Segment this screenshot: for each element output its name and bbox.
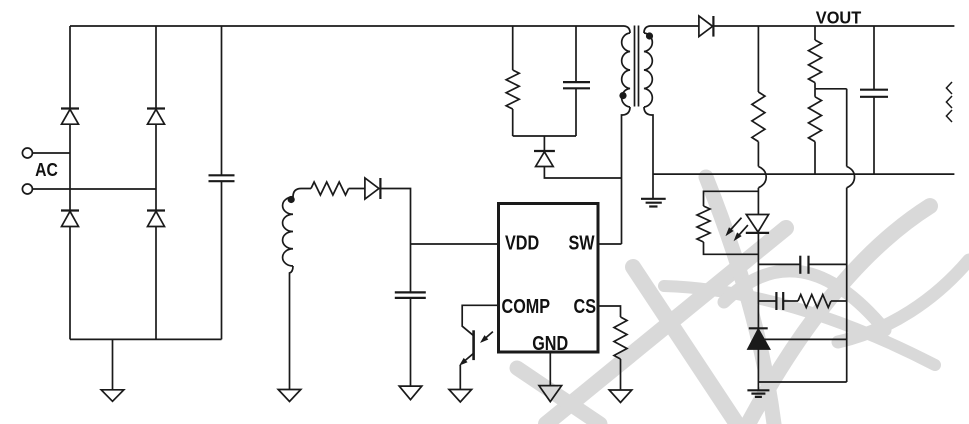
wire AC1 to bridge	[32, 152, 70, 154]
wire hop right over return rail	[847, 167, 855, 188]
wire CS	[598, 306, 621, 317]
polarity dot secondary	[646, 32, 653, 39]
svg-text:CS: CS	[574, 294, 596, 317]
svg-text:VOUT: VOUT	[816, 7, 862, 28]
resistor R9 compensation	[798, 295, 831, 308]
ground primary bridge	[101, 339, 124, 401]
watermark right X arm B	[706, 177, 774, 424]
resistor R4 divider upper	[809, 26, 822, 89]
transistor Q1 opto phototransistor	[460, 330, 493, 389]
wire snubber bottom join	[513, 135, 576, 137]
ground opto emitter	[449, 390, 472, 403]
wire opto resistor top	[704, 191, 759, 206]
watermark cap arc	[724, 271, 885, 330]
resistor R7 upper feedback branch	[752, 26, 765, 167]
capacitor C3 snubber	[563, 26, 590, 136]
ground aux winding	[278, 390, 301, 402]
op-amp U1 controller box	[499, 204, 599, 353]
watermark right crescent	[838, 260, 969, 342]
wire CS resistor to ground	[620, 359, 622, 390]
watermark shallow arc	[664, 286, 935, 365]
inductor L1 aux winding	[283, 189, 311, 390]
diode U3 TL431 shunt	[748, 328, 770, 349]
polarity dot primary	[619, 92, 626, 99]
earth ground TL431	[747, 382, 769, 397]
LED U2 optocoupler emitter	[727, 215, 770, 241]
ground IC	[539, 386, 562, 402]
diode D5 aux	[365, 178, 381, 199]
resistor R10 edge clipped	[946, 82, 952, 122]
wire divider node	[815, 88, 847, 90]
wire GND pin	[549, 352, 551, 386]
diode D4 bridge bottom-right	[147, 211, 165, 227]
resistor R5 divider lower	[809, 89, 822, 174]
wire middle bridge vertical	[155, 26, 157, 339]
ground CS	[609, 390, 632, 403]
terminal AC2	[22, 184, 32, 194]
wire hop over return rail	[758, 167, 766, 188]
capacitor C1 bulk	[209, 26, 235, 339]
capacitor C2 VDD	[395, 292, 426, 386]
wire AC2 to bridge	[32, 188, 156, 190]
svg-text:COMP: COMP	[502, 294, 551, 317]
wire bridge bottom rail	[70, 338, 222, 340]
svg-text:VDD: VDD	[505, 231, 539, 254]
capacitor C5 compensation	[776, 292, 798, 310]
svg-text:AC: AC	[35, 159, 58, 181]
wire snubber mid to diode	[543, 136, 545, 151]
capacitor C4 feedback	[800, 256, 846, 274]
wire cap branch	[758, 263, 800, 265]
terminal AC1	[22, 148, 32, 158]
resistor R8 opto parallel	[697, 206, 710, 242]
resistor R2 snubber	[506, 26, 519, 136]
diode D6 snubber clamp	[534, 151, 555, 167]
transformer T1 core	[635, 26, 639, 107]
resistor R6 CS sense	[614, 317, 627, 359]
svg-text:SW: SW	[569, 231, 596, 254]
wire top rail (rectified HV bus)	[70, 25, 624, 27]
diode D1 bridge top-left	[61, 109, 79, 125]
diode D7 output rectifier	[699, 16, 714, 37]
wire right feedback vertical upper	[846, 89, 848, 167]
watermark left X arm B	[633, 267, 737, 424]
wire opto resistor bottom	[704, 242, 759, 254]
wire aux diode to VDD node	[380, 189, 410, 293]
wire VOUT rail	[713, 25, 954, 27]
wire TL431 anode down	[757, 349, 759, 382]
wire left bridge vertical	[69, 26, 71, 339]
watermark left X arm A	[546, 228, 786, 424]
wire secondary return rail	[653, 173, 954, 175]
svg-text:GND: GND	[532, 331, 568, 354]
wire aux resistor to diode	[349, 188, 365, 190]
wire RC branch to right	[831, 300, 847, 302]
capacitor C6 output	[860, 26, 888, 174]
transformer T1 primary winding	[622, 26, 631, 244]
wire SW	[598, 243, 622, 245]
watermark right X arm A	[748, 206, 930, 424]
diode D3 bridge bottom-left	[61, 211, 79, 227]
wire LED anode drop	[757, 188, 759, 215]
transformer T1 secondary winding	[644, 26, 699, 199]
wire COMP	[462, 305, 498, 335]
wire right feedback vertical lower	[846, 188, 848, 382]
wire snubber return	[544, 167, 621, 179]
ground VDD cap	[399, 386, 422, 400]
polarity dot aux	[288, 196, 295, 203]
diode D2 bridge top-right	[147, 109, 165, 125]
wire RC branch	[758, 300, 776, 302]
watermark left swoosh	[517, 368, 600, 424]
wire TL431 ref	[763, 338, 847, 340]
earth ground secondary	[641, 199, 666, 207]
wire LED cathode down	[757, 233, 759, 328]
wire VDD	[411, 243, 499, 245]
resistor R3 aux	[311, 182, 349, 195]
wire bottom loop	[758, 381, 846, 383]
